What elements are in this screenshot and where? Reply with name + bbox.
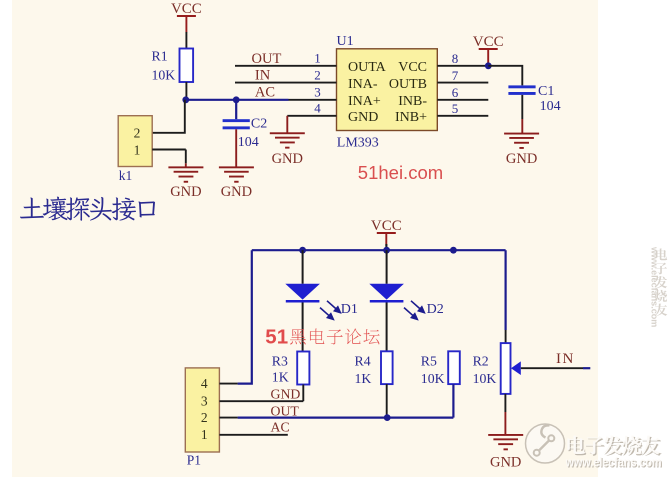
resistor R5 — [421, 351, 460, 386]
power VCC (R1) — [171, 1, 202, 33]
resistor R4 — [355, 351, 393, 386]
wire wiper — [521, 367, 583, 369]
junction — [233, 96, 240, 103]
pin 8 — [437, 51, 488, 66]
text 51hei forum — [265, 325, 379, 348]
svg-text:R3: R3 — [272, 353, 288, 368]
pin 4 — [287, 101, 336, 116]
text soil probe interface — [20, 197, 155, 221]
wire — [488, 66, 522, 86]
wire — [238, 250, 252, 383]
svg-text:51hei.com: 51hei.com — [358, 162, 443, 183]
svg-text:10K: 10K — [152, 67, 176, 82]
op-amp U1 LM393 — [337, 34, 438, 151]
svg-text:OUTB: OUTB — [389, 77, 427, 92]
wire AC net — [186, 99, 289, 101]
svg-text:IN: IN — [556, 351, 575, 367]
svg-text:INB+: INB+ — [395, 110, 427, 125]
pin P1.3 wire GND — [219, 400, 303, 402]
svg-text:GND: GND — [170, 184, 201, 200]
wire — [504, 394, 506, 412]
svg-text:GND: GND — [490, 454, 521, 470]
ground GND (R2) — [488, 434, 523, 470]
svg-text:7: 7 — [452, 68, 459, 83]
pin P1.2 — [219, 417, 237, 419]
svg-text:104: 104 — [540, 99, 561, 114]
svg-text:4: 4 — [314, 101, 321, 116]
svg-text:R4: R4 — [355, 353, 371, 368]
wire — [185, 82, 187, 100]
svg-text:www.elecfans.com: www.elecfans.com — [565, 456, 662, 470]
wire — [583, 367, 590, 369]
junction — [450, 247, 457, 254]
wire — [385, 244, 387, 250]
wire bus — [252, 249, 506, 251]
ground GND (C1) — [504, 133, 539, 168]
svg-text:3: 3 — [201, 393, 208, 408]
pin P1.1 wire AC — [219, 434, 287, 436]
svg-text:R2: R2 — [473, 353, 489, 368]
wire — [386, 384, 388, 418]
svg-text:D1: D1 — [341, 302, 358, 317]
connector P1 — [185, 368, 219, 468]
svg-text:5: 5 — [452, 101, 459, 116]
LED D1 — [285, 250, 358, 351]
watermark text elecfans — [565, 436, 663, 471]
junction — [182, 96, 189, 103]
svg-text:2: 2 — [201, 410, 208, 425]
ground GND (U1 pin4) — [270, 132, 305, 167]
ground lead pin4 — [286, 116, 288, 133]
junction — [383, 247, 390, 254]
wire — [185, 150, 187, 164]
wire — [302, 385, 304, 402]
svg-text:OUTA: OUTA — [348, 60, 387, 75]
svg-text:10K: 10K — [421, 371, 445, 386]
svg-text:U1: U1 — [337, 34, 354, 49]
svg-text:INA-: INA- — [348, 77, 378, 92]
LED D2 — [369, 250, 443, 351]
connector k1 — [118, 116, 186, 183]
svg-text:GND: GND — [272, 151, 303, 167]
svg-text:R1: R1 — [152, 48, 168, 63]
svg-text:2: 2 — [134, 126, 141, 141]
ground lead — [185, 163, 187, 167]
ground lead — [504, 412, 506, 435]
svg-text:GND: GND — [221, 184, 252, 200]
svg-text:D2: D2 — [427, 302, 444, 317]
svg-text:1: 1 — [201, 427, 208, 442]
svg-text:VCC: VCC — [398, 60, 427, 75]
pin P1.4 — [219, 383, 237, 385]
resistor R1 — [152, 48, 194, 82]
svg-text:1K: 1K — [272, 370, 289, 385]
watermark right edge vertical — [650, 246, 668, 327]
svg-text:LM393: LM393 — [337, 136, 379, 151]
svg-text:OUT: OUT — [252, 51, 282, 67]
wire — [185, 32, 187, 49]
svg-text:2: 2 — [314, 67, 321, 82]
svg-text:INB-: INB- — [398, 94, 427, 109]
svg-text:www.elecfans.com: www.elecfans.com — [650, 246, 660, 327]
svg-text:8: 8 — [452, 51, 459, 66]
svg-text:k1: k1 — [119, 168, 133, 183]
capacitor C2 — [223, 100, 268, 167]
svg-text:IN: IN — [255, 68, 271, 84]
svg-text:VCC: VCC — [171, 1, 202, 17]
ground GND (C2) — [219, 166, 254, 199]
svg-text:1: 1 — [134, 142, 141, 157]
ground GND (k1) — [168, 166, 203, 199]
pin 5 — [437, 101, 488, 116]
pin 3 — [289, 84, 337, 99]
svg-text:4: 4 — [201, 376, 208, 391]
junction — [384, 414, 391, 421]
svg-text:GND: GND — [348, 110, 378, 125]
capacitor C1 — [508, 84, 560, 133]
svg-text:51: 51 — [265, 325, 288, 348]
svg-text:3: 3 — [314, 84, 321, 99]
svg-text:GND: GND — [271, 386, 301, 401]
svg-text:AC: AC — [271, 420, 290, 435]
power VCC (U1 pin8) — [473, 34, 504, 66]
svg-text:6: 6 — [452, 85, 459, 100]
svg-text:R5: R5 — [421, 353, 437, 368]
resistor R3 — [272, 352, 310, 385]
junction — [299, 247, 306, 254]
svg-text:VCC: VCC — [371, 218, 402, 234]
svg-text:10K: 10K — [473, 371, 497, 386]
wire OUT net — [238, 417, 454, 419]
power VCC (bus) — [371, 218, 402, 247]
junction — [485, 62, 492, 69]
svg-text:OUT: OUT — [271, 404, 300, 419]
svg-text:VCC: VCC — [473, 34, 504, 50]
wire — [505, 330, 507, 343]
svg-text:AC: AC — [255, 85, 275, 101]
svg-text:C1: C1 — [538, 84, 554, 99]
pin 1 — [235, 51, 337, 66]
watermark logo elecfans — [526, 424, 565, 463]
wire — [452, 384, 454, 418]
svg-text:INA+: INA+ — [348, 94, 381, 109]
pin 7 — [437, 68, 488, 83]
svg-text:P1: P1 — [187, 452, 201, 467]
potentiometer R2 — [473, 343, 521, 394]
svg-text:104: 104 — [238, 135, 259, 150]
svg-text:C2: C2 — [251, 116, 267, 131]
wire — [152, 100, 185, 133]
svg-text:1: 1 — [314, 51, 321, 66]
pin 2 — [235, 67, 337, 82]
svg-text:GND: GND — [506, 151, 537, 167]
svg-text:1K: 1K — [355, 371, 372, 386]
pin 6 — [437, 85, 488, 100]
wire — [505, 250, 507, 330]
